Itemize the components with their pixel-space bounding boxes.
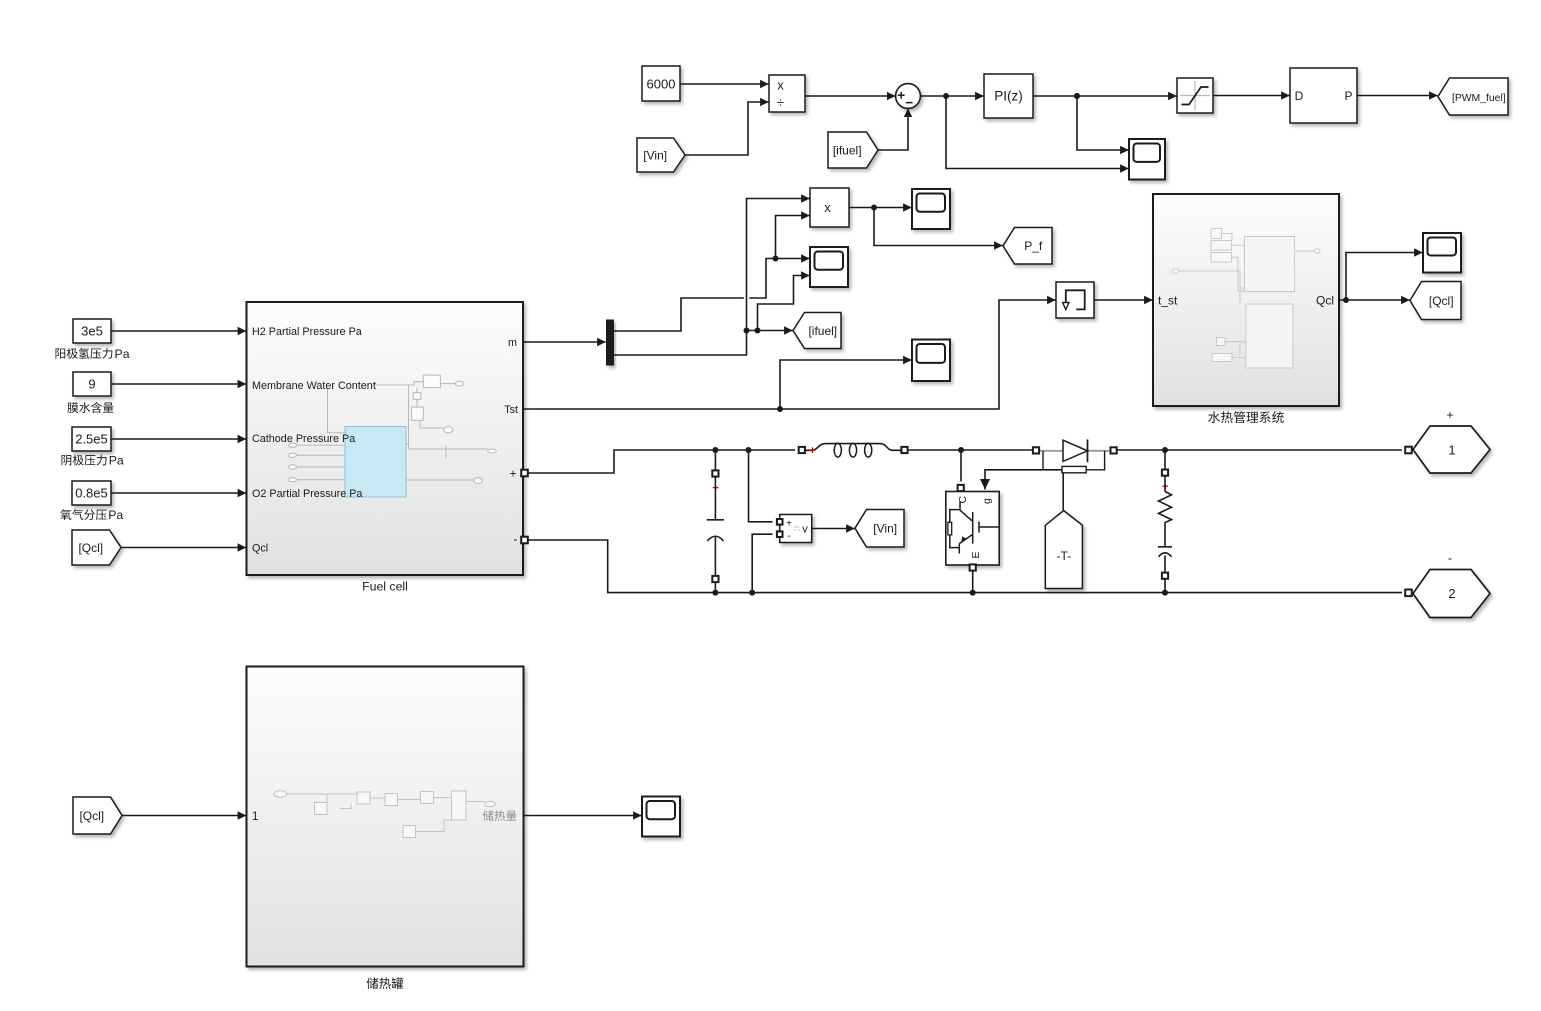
wire bbox=[849, 205, 912, 211]
svg-text:-T-: -T- bbox=[1056, 549, 1071, 563]
subsystem Fuel cell bbox=[247, 302, 528, 575]
svg-text:H2 Partial Pressure Pa: H2 Partial Pressure Pa bbox=[252, 326, 362, 338]
svg-text:Qcl: Qcl bbox=[1316, 294, 1334, 308]
svg-text:-: - bbox=[514, 532, 518, 546]
svg-text:m: m bbox=[508, 337, 517, 349]
diode D bbox=[1033, 440, 1117, 463]
wire bbox=[805, 95, 895, 97]
sum junction bbox=[896, 84, 921, 109]
demux bbox=[606, 320, 614, 366]
constant 9 bbox=[73, 372, 111, 396]
wire snubber bbox=[1043, 451, 1105, 473]
svg-text:D: D bbox=[1295, 89, 1304, 103]
Goto tag [PWM_fuel] bbox=[1438, 78, 1508, 115]
scope Qcl bbox=[1423, 233, 1461, 273]
IGBT switch bbox=[946, 492, 999, 566]
wire bbox=[111, 438, 246, 440]
constant 0.8e5 bbox=[72, 481, 111, 505]
saturation block bbox=[1177, 78, 1213, 113]
label membrane water bbox=[67, 402, 113, 413]
svg-text:Cathode Pressure Pa: Cathode Pressure Pa bbox=[252, 433, 355, 445]
svg-text:9: 9 bbox=[88, 377, 95, 392]
wire bbox=[780, 360, 912, 409]
svg-text:g: g bbox=[981, 498, 993, 504]
svg-text:1: 1 bbox=[252, 811, 258, 823]
wire bbox=[1117, 447, 1402, 453]
svg-text:1: 1 bbox=[1448, 443, 1455, 458]
svg-text:[Vin]: [Vin] bbox=[643, 148, 667, 162]
wire bbox=[946, 96, 1129, 169]
svg-text:0.8e5: 0.8e5 bbox=[75, 486, 108, 501]
scope storage bbox=[642, 797, 680, 837]
Goto tag P_f bbox=[1003, 228, 1052, 265]
wire bbox=[523, 300, 1056, 412]
label cathode pressure bbox=[61, 454, 123, 468]
scope duty bbox=[1129, 139, 1165, 180]
svg-text:[Qcl]: [Qcl] bbox=[78, 541, 103, 555]
svg-text:[ifuel]: [ifuel] bbox=[808, 324, 837, 338]
svg-text:v: v bbox=[802, 524, 808, 536]
Goto tag [ifuel] bbox=[793, 313, 841, 349]
wire bbox=[747, 328, 793, 334]
wire bbox=[1346, 253, 1423, 301]
port 2 bbox=[1405, 551, 1490, 618]
D-P block bbox=[1290, 68, 1357, 123]
svg-text:t_st: t_st bbox=[1158, 294, 1178, 308]
wire bbox=[1357, 95, 1438, 97]
svg-text:-: - bbox=[1448, 551, 1452, 565]
From tag [Qcl] bbox=[72, 530, 121, 565]
wire bbox=[1074, 93, 1129, 150]
svg-text:Pa: Pa bbox=[108, 508, 123, 522]
svg-text:Tst: Tst bbox=[504, 404, 518, 416]
wire bbox=[970, 564, 976, 592]
svg-text:Pa: Pa bbox=[115, 347, 130, 361]
wire bbox=[1213, 95, 1290, 97]
wire bbox=[749, 450, 773, 522]
wire bbox=[122, 815, 246, 817]
wire bbox=[111, 492, 246, 494]
Goto tag [Qcl] bbox=[1410, 282, 1461, 320]
svg-text:[PWM_fuel]: [PWM_fuel] bbox=[1452, 93, 1506, 104]
wire bbox=[614, 256, 810, 332]
label Fuel cell bbox=[362, 580, 408, 594]
svg-text:÷: ÷ bbox=[777, 95, 784, 110]
wire bbox=[111, 330, 246, 332]
wire bbox=[958, 450, 964, 491]
wire bbox=[812, 528, 855, 530]
wire bbox=[680, 83, 769, 85]
series RC branch bbox=[1158, 450, 1172, 593]
wire minus rail bbox=[528, 540, 1402, 596]
voltage measurement bbox=[777, 515, 812, 543]
svg-text:3e5: 3e5 bbox=[81, 324, 103, 339]
svg-text:2: 2 bbox=[1448, 586, 1455, 601]
Goto tag -T- bbox=[1045, 511, 1082, 589]
PI(z) controller bbox=[984, 74, 1033, 118]
wire bbox=[121, 547, 246, 549]
svg-text:x: x bbox=[824, 200, 831, 215]
wire bbox=[524, 815, 642, 817]
wire bbox=[776, 216, 810, 259]
wire bbox=[874, 208, 1003, 246]
scope current bbox=[810, 247, 848, 287]
subsystem thermal management bbox=[1153, 194, 1339, 406]
capacitor C bbox=[707, 450, 724, 593]
svg-text:O2 Partial Pressure Pa: O2 Partial Pressure Pa bbox=[252, 488, 362, 500]
From tag [Qcl] storage bbox=[73, 797, 122, 834]
svg-text:P_f: P_f bbox=[1024, 239, 1043, 253]
svg-text:[Vin]: [Vin] bbox=[873, 522, 897, 536]
svg-text:Qcl: Qcl bbox=[252, 543, 268, 555]
wire bbox=[908, 447, 1033, 453]
svg-text:Membrane Water Content: Membrane Water Content bbox=[252, 380, 376, 392]
multiply block bbox=[810, 188, 849, 227]
svg-text:+: + bbox=[1446, 408, 1453, 422]
wire bbox=[1339, 297, 1410, 303]
wire bbox=[523, 341, 606, 343]
scope power bbox=[912, 189, 950, 229]
label O2 partial pressure bbox=[60, 508, 123, 522]
svg-text:-: - bbox=[787, 531, 790, 542]
constant 2.5e5 bbox=[72, 427, 111, 451]
constant 3e5 bbox=[73, 319, 111, 343]
inductor L bbox=[799, 443, 908, 457]
svg-text:+: + bbox=[809, 445, 815, 457]
svg-text:+: + bbox=[509, 467, 516, 481]
port 1 bbox=[1405, 408, 1490, 473]
wire bbox=[614, 199, 810, 356]
svg-text:Pa: Pa bbox=[109, 454, 124, 468]
wire bbox=[1094, 299, 1153, 301]
svg-text:[Qcl]: [Qcl] bbox=[79, 809, 104, 823]
From tag [ifuel] bbox=[828, 132, 878, 168]
svg-text:+: + bbox=[786, 518, 792, 529]
svg-text:P: P bbox=[1344, 89, 1352, 103]
wire bbox=[758, 276, 810, 331]
svg-text:PI(z): PI(z) bbox=[994, 89, 1023, 104]
svg-text:E: E bbox=[970, 551, 982, 558]
label thermal management bbox=[1208, 411, 1284, 423]
subsystem thermal storage tank bbox=[247, 667, 524, 967]
svg-text:6000: 6000 bbox=[647, 77, 676, 92]
wire bbox=[878, 109, 908, 150]
From tag [Vin] bbox=[637, 138, 685, 172]
wire bbox=[1033, 93, 1177, 99]
wire bbox=[752, 534, 772, 592]
label storage tank bbox=[367, 977, 404, 989]
svg-text:[ifuel]: [ifuel] bbox=[833, 143, 862, 157]
wire bbox=[685, 102, 769, 155]
svg-text:Fuel cell: Fuel cell bbox=[362, 580, 408, 594]
svg-text:[Qcl]: [Qcl] bbox=[1429, 294, 1454, 308]
svg-text:C: C bbox=[957, 496, 969, 504]
label anode H2 pressure bbox=[56, 347, 130, 361]
memory block bbox=[1056, 282, 1094, 318]
svg-text:x: x bbox=[777, 78, 784, 93]
wire bbox=[920, 93, 983, 99]
Goto tag [Vin] bbox=[855, 510, 904, 548]
wire bbox=[111, 383, 246, 385]
scope temperature bbox=[912, 340, 950, 382]
svg-text:2.5e5: 2.5e5 bbox=[75, 432, 108, 447]
divide block bbox=[769, 75, 805, 112]
wire gate bbox=[985, 470, 1063, 510]
constant 6000 bbox=[642, 66, 680, 101]
wire plus rail bbox=[528, 447, 795, 473]
